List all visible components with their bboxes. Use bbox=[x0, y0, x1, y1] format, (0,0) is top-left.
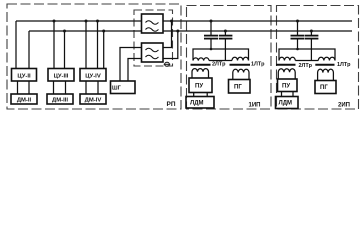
node dot C4 on bus2 bbox=[310, 30, 313, 33]
svg-text:ДМ-II: ДМ-II bbox=[17, 98, 32, 104]
transformer 2LTr secondary winding 2IP bbox=[278, 69, 295, 79]
block CU-IV bbox=[80, 69, 106, 82]
node dot C1 on primary top line bbox=[210, 48, 213, 51]
node dot CU-IV left on L1 bbox=[85, 20, 88, 23]
wire capacitor C3 bottom lead bbox=[297, 39, 299, 49]
svg-text:ПГ: ПГ bbox=[234, 85, 242, 91]
wire PU to LDM right bbox=[206, 93, 208, 97]
svg-text:ЦУ-II: ЦУ-II bbox=[17, 74, 31, 80]
svg-text:РП: РП bbox=[167, 101, 176, 108]
svg-text:ПУ: ПУ bbox=[282, 84, 290, 90]
wire capacitor C2 bottom lead bbox=[224, 39, 226, 60]
node dot CU-IV third on L2 bbox=[102, 30, 105, 33]
wire CU-IV to DM-IV right bbox=[97, 81, 99, 94]
node dot F2 output1 on bus1 bbox=[170, 20, 173, 23]
svg-text:ДМ-III: ДМ-III bbox=[52, 98, 68, 104]
node dot C3 on primary top line 2IP bbox=[296, 48, 299, 51]
transformer 1LTr secondary winding 2IP bbox=[318, 69, 334, 80]
wire CU-IV right drop bbox=[97, 21, 99, 69]
wire capacitor C1 top lead bbox=[210, 21, 212, 35]
transformer 1LTr secondary winding bbox=[233, 69, 249, 79]
block DM-IV bbox=[80, 94, 106, 104]
svg-text:ПУ: ПУ bbox=[195, 84, 203, 90]
enclosure 2IP dashed box bbox=[277, 6, 359, 110]
svg-text:2ЛТр: 2ЛТр bbox=[212, 62, 226, 68]
node dot C3 on bus1 bbox=[296, 20, 299, 23]
node dot CU-III left on L1 bbox=[53, 20, 56, 23]
wire capacitor C1 bottom lead bbox=[210, 39, 212, 49]
wire between primary windings bbox=[209, 60, 232, 62]
wire capacitor C3 top lead bbox=[297, 21, 299, 35]
wire ShG left to filter F2 input 1 bbox=[120, 48, 142, 82]
svg-text:2ЛТр: 2ЛТр bbox=[299, 63, 313, 69]
node dot CU-IV right on L1 bbox=[96, 20, 99, 23]
wire transformer primary top line 1IP bbox=[193, 49, 249, 61]
block DM-II bbox=[11, 94, 37, 104]
wire CU-II to DM-II left bbox=[17, 81, 19, 94]
wire CU-III to DM-III right bbox=[65, 81, 67, 94]
block ShG bbox=[111, 81, 136, 94]
wire between primary windings 2IP bbox=[295, 60, 318, 62]
filter F2 box bbox=[142, 43, 164, 62]
wire CU-II left drop bbox=[15, 21, 17, 69]
wire ShG right to filter F2 input 2 bbox=[128, 59, 142, 82]
transformer 2LTr secondary winding bbox=[192, 69, 209, 78]
wire transformer primary top line 2IP bbox=[279, 49, 335, 61]
enclosure F dashed box (filter group) bbox=[134, 10, 173, 66]
filter F1 tilde upper bbox=[146, 21, 159, 24]
block PG 2IP bbox=[315, 81, 336, 94]
wire capacitor C2 top lead bbox=[224, 31, 226, 35]
filter F1 tilde lower bbox=[146, 28, 159, 31]
wire F2 output 1 up to bus1 bbox=[163, 21, 172, 48]
transformer 2LTr primary winding bbox=[193, 58, 209, 61]
enclosure 1IP dashed box bbox=[187, 6, 272, 110]
block PG 1IP bbox=[229, 80, 251, 94]
transformer 1LTr primary winding 2IP bbox=[318, 57, 335, 60]
capacitor C4 bbox=[305, 36, 319, 39]
wire CU-IV left drop bbox=[85, 21, 87, 69]
wire CU-IV third drop from L2 bbox=[103, 31, 105, 69]
svg-text:ПГ: ПГ bbox=[320, 85, 328, 91]
wire CU-II right drop bbox=[28, 31, 30, 69]
transformer 2LTr core bbox=[191, 64, 211, 66]
filter F2 tilde upper bbox=[146, 48, 159, 51]
wire bus2 bbox=[163, 30, 352, 32]
svg-text:ДМ-IV: ДМ-IV bbox=[85, 98, 102, 104]
wire CU-III to DM-III left bbox=[53, 81, 55, 94]
transformer 1LTr primary winding bbox=[232, 57, 249, 60]
wire CU-II to DM-II right bbox=[28, 81, 30, 94]
enclosure RP dashed box bbox=[7, 4, 181, 109]
wire bus1 bbox=[163, 20, 352, 22]
svg-text:2ИП: 2ИП bbox=[338, 103, 350, 109]
block LDM 1IP bbox=[186, 97, 214, 109]
wire capacitor C4 bottom lead bbox=[310, 39, 312, 60]
svg-text:ЦУ-IV: ЦУ-IV bbox=[85, 74, 101, 80]
filter F2 tilde lower bbox=[146, 55, 159, 58]
transformer 2LTr primary winding 2IP bbox=[279, 57, 295, 60]
node dot CU-III right on L2 bbox=[63, 30, 66, 33]
wire capacitor C4 top lead bbox=[310, 31, 312, 35]
capacitor C1 bbox=[204, 36, 218, 39]
wire PU to LDM left bbox=[193, 93, 195, 97]
svg-text:ЦУ-III: ЦУ-III bbox=[54, 74, 69, 80]
label F symbol bbox=[164, 62, 171, 66]
block LDM 2IP bbox=[276, 97, 299, 109]
wire L2 comb bus bbox=[29, 30, 142, 32]
wire PU to LDM right 2IP bbox=[292, 92, 294, 97]
transformer 1LTr core 2IP bbox=[315, 64, 334, 66]
wire CU-III left drop bbox=[53, 21, 55, 69]
transformer 2LTr core 2IP bbox=[276, 64, 296, 66]
svg-text:ЛДМ: ЛДМ bbox=[190, 101, 203, 107]
svg-text:1ЛТр: 1ЛТр bbox=[337, 62, 351, 68]
filter F1 box bbox=[142, 14, 164, 33]
capacitor C3 bbox=[291, 36, 305, 39]
block DM-III bbox=[47, 94, 73, 104]
svg-text:1ЛТр: 1ЛТр bbox=[251, 62, 265, 68]
wire CU-III right drop bbox=[64, 31, 66, 69]
block CU-III bbox=[48, 69, 74, 82]
block PU 2IP bbox=[278, 79, 298, 92]
svg-text:ШГ: ШГ bbox=[112, 86, 122, 92]
svg-text:ЛДМ: ЛДМ bbox=[279, 101, 292, 107]
wire PU to LDM left 2IP bbox=[281, 92, 283, 97]
block PU 1IP bbox=[189, 78, 212, 93]
node dot C1 on bus1 bbox=[210, 20, 213, 23]
wire F2 output 2 up to bus2 bbox=[163, 31, 178, 59]
node dot C2 on bus2 bbox=[224, 30, 227, 33]
wire L1 comb bus bbox=[16, 20, 142, 22]
block CU-II bbox=[12, 69, 37, 82]
transformer 1LTr core bbox=[230, 64, 251, 66]
wire CU-IV to DM-IV left bbox=[85, 81, 87, 94]
capacitor C2 bbox=[219, 36, 233, 39]
node dot F2 output2 on bus2 bbox=[176, 30, 179, 33]
svg-text:1ИП: 1ИП bbox=[249, 103, 261, 109]
